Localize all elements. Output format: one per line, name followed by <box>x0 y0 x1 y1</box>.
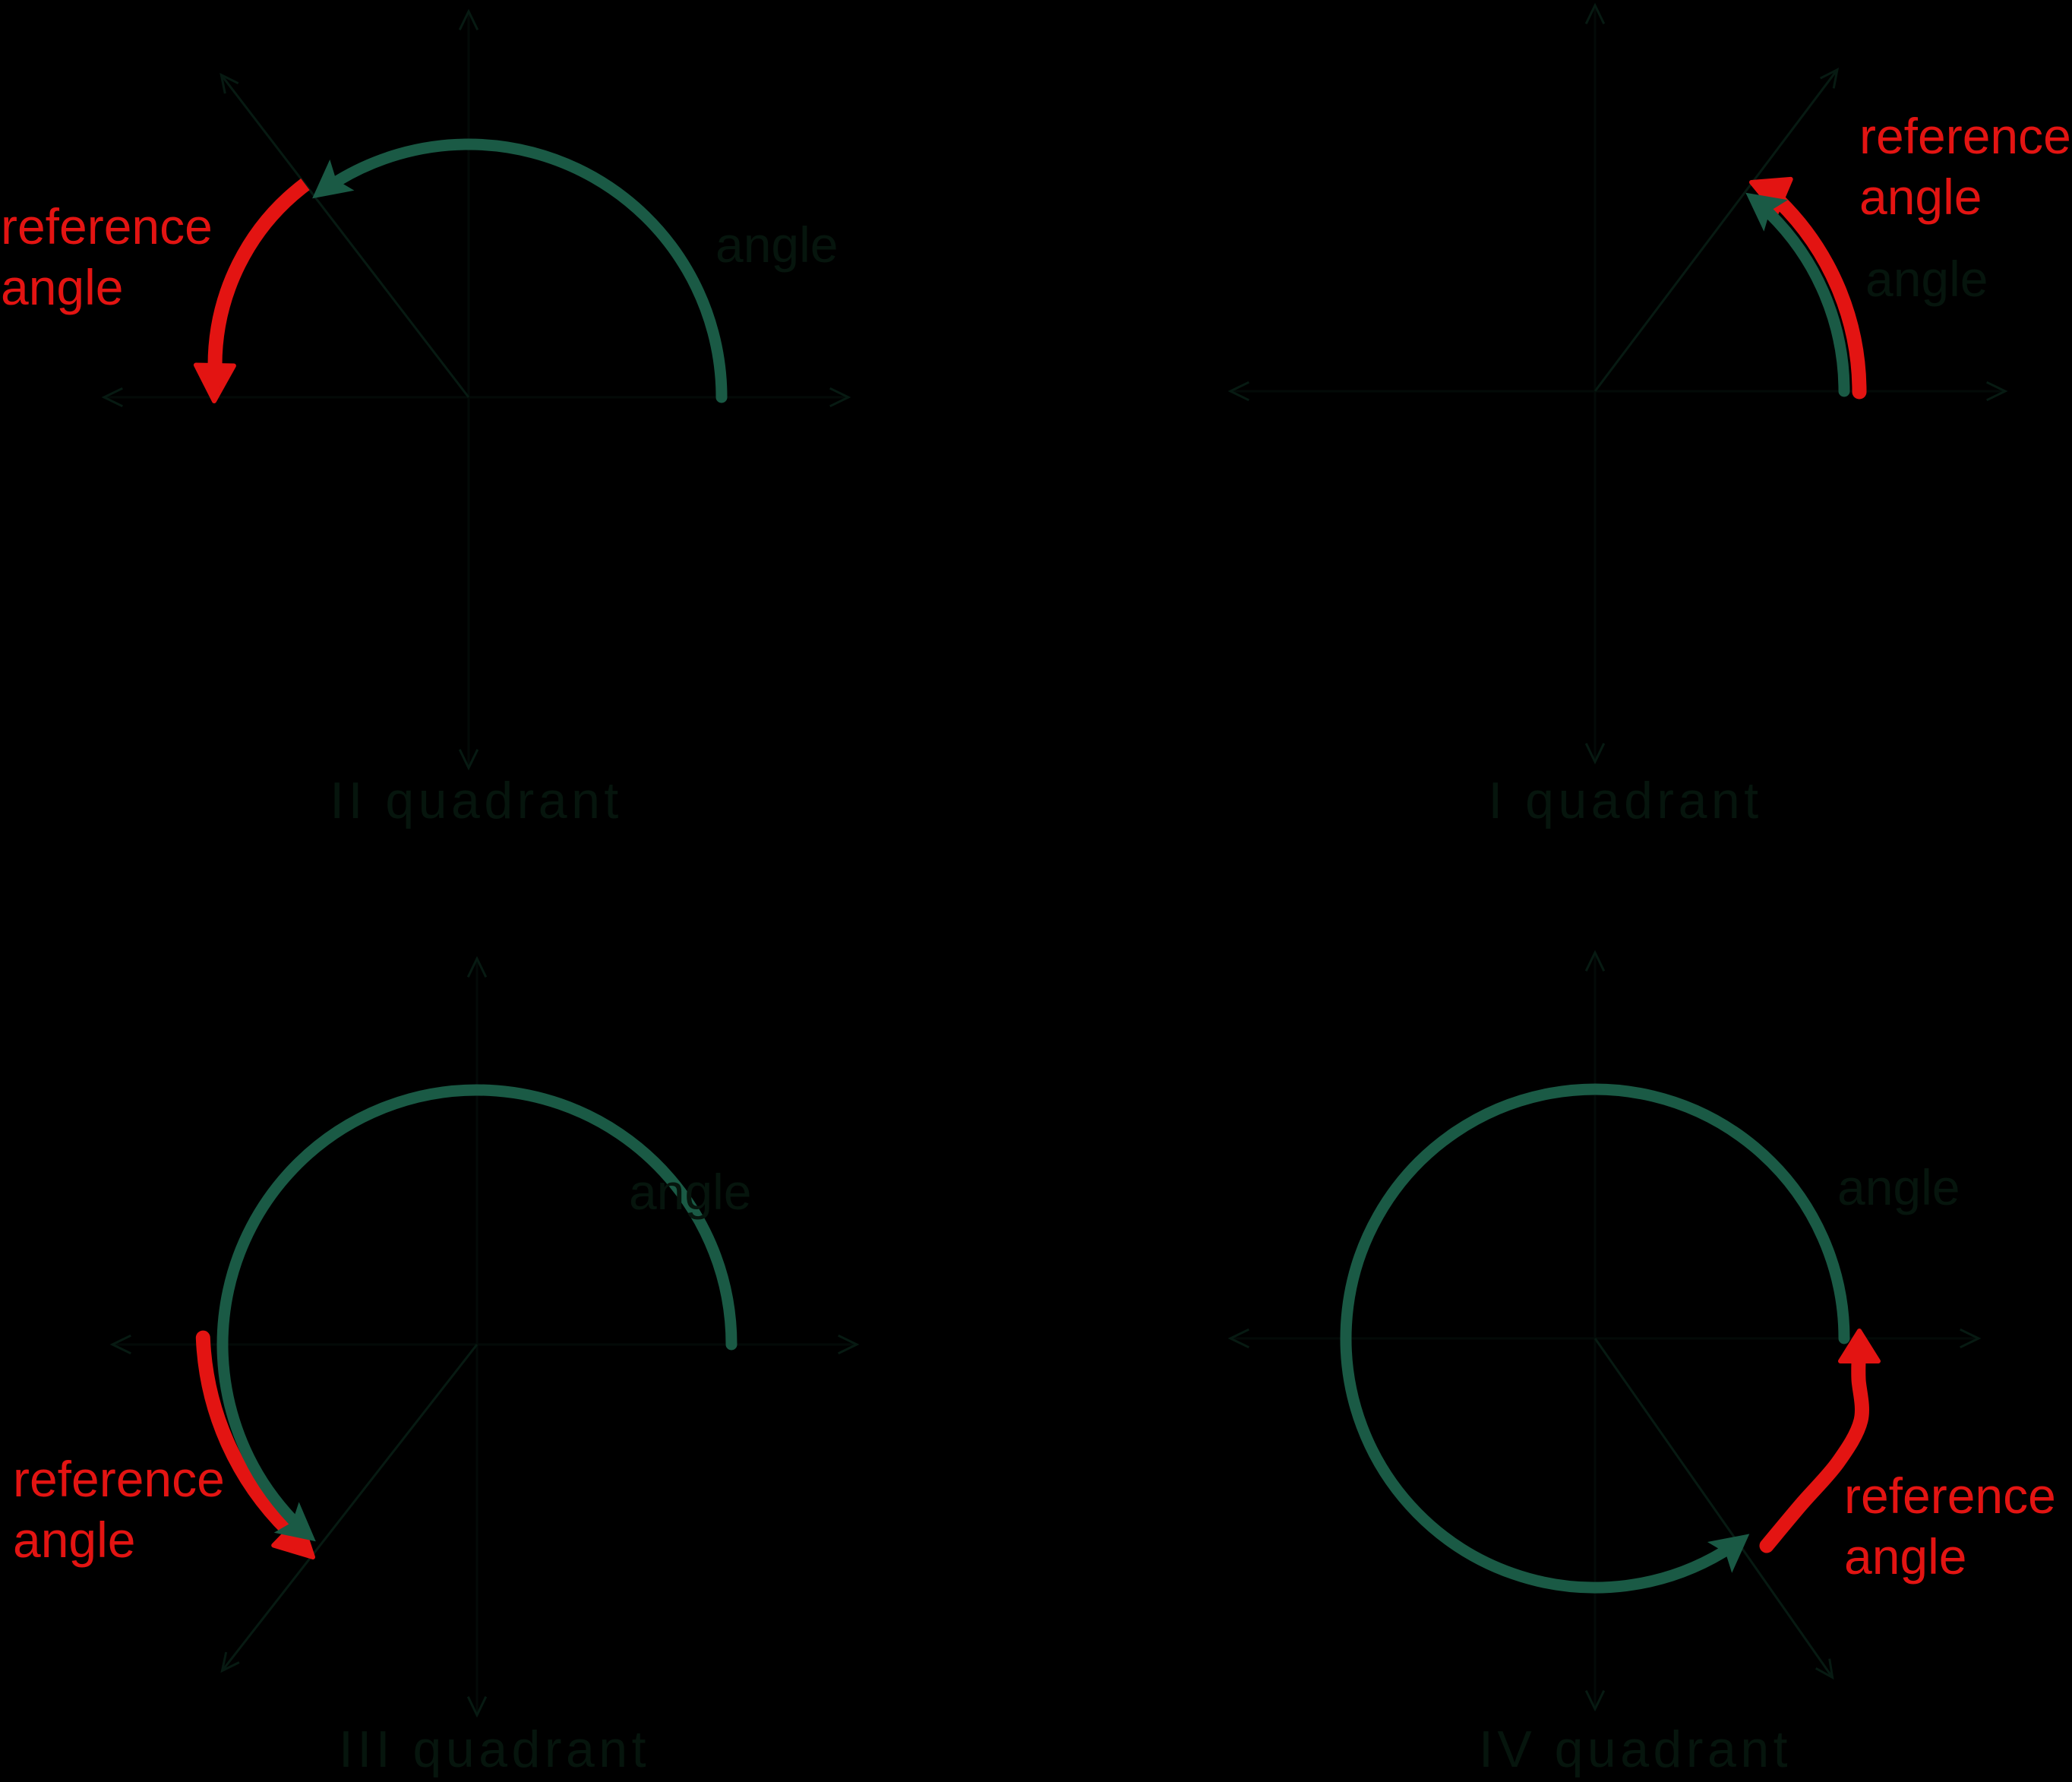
svg-text:reference: reference <box>1 198 213 254</box>
svg-text:III quadrant: III quadrant <box>339 1720 650 1778</box>
svg-text:reference: reference <box>1844 1468 2056 1524</box>
svg-text:angle: angle <box>13 1512 136 1568</box>
svg-text:angle: angle <box>629 1164 752 1220</box>
svg-text:angle: angle <box>715 216 839 273</box>
svg-text:reference: reference <box>1859 108 2071 164</box>
svg-text:IV quadrant: IV quadrant <box>1479 1720 1792 1778</box>
svg-text:angle: angle <box>1865 251 1988 307</box>
svg-text:angle: angle <box>1859 169 1982 225</box>
svg-text:angle: angle <box>1 259 124 315</box>
svg-text:angle: angle <box>1844 1528 1967 1585</box>
svg-text:reference: reference <box>13 1451 225 1507</box>
svg-text:I quadrant: I quadrant <box>1488 772 1762 829</box>
svg-text:angle: angle <box>1837 1159 1960 1215</box>
svg-text:II quadrant: II quadrant <box>330 772 623 829</box>
